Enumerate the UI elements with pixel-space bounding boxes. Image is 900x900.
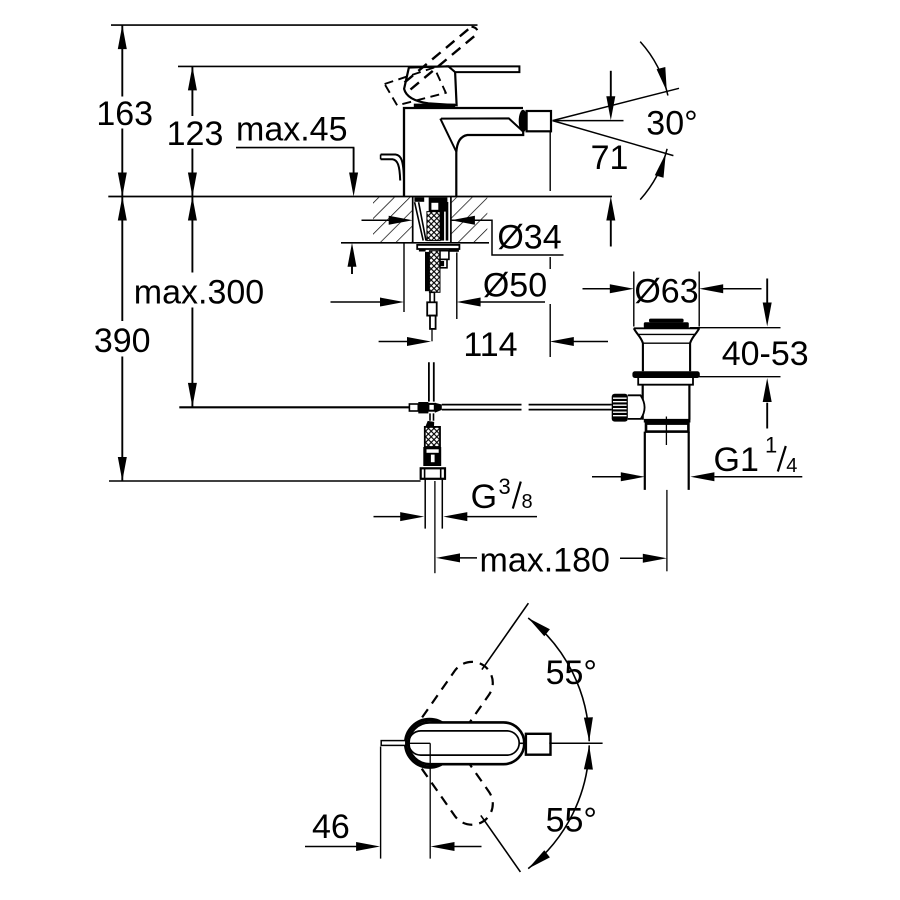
top view: dashed lever position upper 55 [400, 654, 501, 773]
arrow lower arc bottom [528, 850, 550, 868]
top view: pop-up rod stub [381, 741, 406, 746]
D50 extension lines [404, 244, 457, 320]
wire 123 extension line / lever top [178, 65, 519, 67]
dimension 71 upper arrow [610, 71, 612, 97]
deck bottom line [341, 242, 489, 244]
second tube right of hose [440, 251, 449, 260]
40-53 extension lines [690, 328, 781, 377]
drain coupling band [646, 424, 688, 432]
washer under deck [417, 245, 459, 249]
faucet spout lower curve [456, 131, 523, 197]
shank braided section in hole [427, 212, 440, 241]
handle lever bar [449, 66, 520, 72]
arrow 30deg upper [657, 67, 667, 91]
svg-text:max.45: max.45 [236, 110, 348, 148]
deck hatch right [451, 197, 487, 242]
faucet spout inner top line [441, 118, 522, 130]
dimension D50 left arrow [331, 301, 381, 303]
svg-text:3: 3 [499, 474, 511, 499]
spray angle vertex lines: centerline [553, 120, 624, 122]
shank clamping wedge lines [415, 202, 426, 240]
svg-text:114: 114 [463, 326, 517, 364]
top view: lever stadium inner [409, 731, 520, 755]
lower braided hose [425, 427, 440, 447]
svg-text:55°: 55° [546, 801, 597, 839]
wire max.45 underline [236, 147, 354, 149]
pop-up rod T-fitting [409, 404, 418, 411]
drain knurled knob [612, 394, 628, 422]
dimension 71 lower arrow [610, 221, 612, 247]
spray angle lower diagonal [553, 121, 674, 156]
top view: aerator square [526, 734, 551, 755]
svg-text:max.180: max.180 [480, 542, 610, 580]
arrow max300 down [188, 383, 197, 407]
wire 390 bottom reference line [109, 480, 421, 482]
drain tailpipe [645, 432, 689, 490]
svg-text:Ø63: Ø63 [634, 273, 698, 311]
lower hose connector dark [423, 447, 441, 466]
dimension D63 left arrow [583, 288, 611, 290]
dimension max.180 left arrow [436, 553, 460, 562]
arrow max300 up [188, 197, 197, 221]
dimension max.180 right arrow [643, 554, 667, 563]
dimension max.45 upper arrow [353, 148, 355, 174]
shank dark strips right [440, 202, 444, 241]
handle raised position dashed body [385, 68, 446, 106]
svg-text:46: 46 [312, 808, 350, 846]
drain knob hub [628, 395, 645, 419]
drain push cap dark slabs [649, 319, 684, 323]
arrow 123 down [188, 173, 197, 197]
top view: left extension line [380, 747, 382, 859]
drain flange top [634, 327, 699, 329]
aerator end crescent [519, 110, 528, 132]
svg-text:G: G [471, 478, 497, 516]
55 deg upper arc [528, 618, 589, 741]
handle raised position dashed lever line 1 [405, 27, 472, 83]
drain flange sides [634, 328, 699, 371]
drain band below seal [638, 378, 693, 385]
handle raised position dashed lever line 2 [411, 34, 478, 90]
svg-text:Ø50: Ø50 [483, 267, 547, 305]
deck top surface line [108, 196, 612, 198]
svg-text:8: 8 [522, 491, 533, 513]
drain seal ring dark [632, 371, 699, 378]
svg-text:123: 123 [167, 115, 224, 153]
drain body bottom thick [644, 419, 691, 423]
faucet body outline [404, 108, 523, 197]
arrow upper arc top [528, 618, 550, 636]
dimension G1 1/4 right arrow [714, 476, 802, 478]
top view: dashed lever position lower 55 [400, 714, 501, 833]
faucet spout column diagonal [440, 119, 456, 152]
top view: centerline right [549, 742, 602, 744]
dimension 114 right arrow [573, 341, 608, 343]
30 degree lower arc [640, 149, 667, 200]
svg-text:4: 4 [786, 455, 797, 477]
handle raised dashed lever tip cap [472, 27, 478, 34]
dimension G1 1/4 left arrow [592, 476, 622, 478]
dimension 114 left arrow [379, 341, 408, 343]
dimension G3/8 left arrow [374, 516, 401, 518]
pop-up rod horizontal right (to break) [442, 405, 522, 410]
arrow 163 up [118, 25, 127, 49]
dimension 46 left arrow [305, 846, 357, 848]
dimension D50 right arrow [480, 301, 545, 303]
mounting hole right edge [450, 197, 452, 243]
arrow upper arc bottom [584, 717, 593, 741]
connection nut [421, 468, 445, 479]
handle body solid [404, 66, 457, 105]
lower braided hose cap [425, 421, 434, 427]
dimension 40-53 upper arrow [766, 279, 768, 304]
svg-text:40-53: 40-53 [722, 335, 809, 373]
dimension D34 left arrow [362, 219, 390, 221]
svg-text:max.300: max.300 [134, 273, 264, 311]
svg-text:30°: 30° [646, 105, 697, 143]
top view: cartridge circle [406, 720, 454, 768]
top view: lever stadium outer [409, 722, 525, 764]
dimension G3/8 right arrow [467, 516, 537, 518]
spray angle upper diagonal [553, 88, 680, 120]
svg-text:G1: G1 [714, 441, 759, 479]
aerator tip extension line down [549, 132, 551, 358]
arrow 123 up [188, 66, 197, 90]
arrow lower arc top [584, 745, 593, 769]
fitting lower stub [430, 413, 434, 420]
arrow 390 down [118, 457, 127, 481]
55 deg lower arc [528, 745, 589, 868]
drain centerline below [666, 490, 668, 571]
drain pop-up waste: D63 extension lines [634, 272, 699, 327]
hose end fittings [430, 292, 434, 302]
top view: centerline inside circle [406, 743, 430, 858]
deck hatch left [373, 197, 413, 242]
dimension 40-53 lower arrow [766, 403, 768, 429]
svg-text:Ø34: Ø34 [497, 218, 561, 256]
dimension D34 right arrow and stepped leader [451, 216, 475, 225]
pop-up rod horizontal left [179, 406, 409, 408]
dimension line 163-390 vertical [121, 25, 123, 481]
pop-up rod horizontal after break [529, 405, 612, 410]
drain body sides [643, 385, 690, 420]
dimension max.45 lower arrow [351, 266, 353, 274]
faucet centerline lower [434, 481, 436, 573]
G3/8 threaded tails [425, 479, 442, 529]
drain flange inner rim lines [639, 334, 695, 343]
svg-text:390: 390 [94, 322, 151, 360]
handle base dark junction [414, 104, 455, 107]
dimension 46 right arrow [455, 846, 482, 848]
pop-up rod hook left of body [381, 155, 404, 180]
mounting hole left edge [412, 197, 414, 243]
arrow 163 down [118, 173, 127, 197]
arrow 30deg lower [655, 153, 666, 177]
55 deg upper diagonal [482, 603, 529, 669]
55 deg lower diagonal [481, 815, 521, 872]
svg-text:163: 163 [96, 95, 153, 133]
30 degree upper arc [640, 42, 668, 96]
svg-text:1: 1 [765, 432, 777, 457]
braided hose below washer [425, 252, 429, 291]
wire top reference line [111, 24, 478, 26]
shank hardware top dark blocks [414, 197, 424, 201]
svg-text:55°: 55° [546, 654, 597, 692]
aerator tip rectangle [527, 111, 551, 131]
drain center tick [665, 417, 667, 446]
arrow 390 up [118, 197, 127, 221]
svg-text:71: 71 [591, 139, 629, 177]
pop-up rod vertical upper [429, 362, 434, 401]
hose centerline stub [431, 329, 433, 341]
dimension D63 right arrow [723, 288, 762, 290]
dimension line 123-max300 vertical [191, 66, 193, 407]
